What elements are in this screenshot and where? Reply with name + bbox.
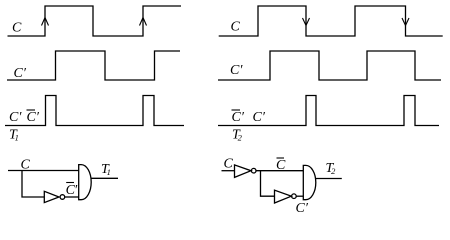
wire C input (left circuit) (8, 170, 79, 172)
wire bubble to AND gate (right circuit) (296, 195, 303, 197)
inverter G2 bubble (60, 195, 65, 200)
inverter G4 (right circuit) (235, 165, 252, 178)
wire T2 output (316, 178, 342, 180)
svg-text:C′: C′ (14, 66, 27, 81)
svg-text:C′: C′ (253, 110, 266, 125)
svg-text:C: C (231, 20, 241, 35)
overline of C-bar' (right row 3) (232, 109, 241, 111)
waveform C (right timing diagram) (219, 6, 443, 36)
overline of C-bar' (left circuit) (66, 182, 74, 184)
AND gate G3 (right circuit) (303, 165, 316, 199)
wire C-bar to AND gate (right circuit) (256, 170, 303, 172)
svg-text:T1: T1 (9, 128, 19, 143)
waveform C' (left timing diagram) (7, 51, 180, 80)
overline of C-bar (right circuit) (277, 157, 285, 159)
svg-text:C′: C′ (296, 201, 309, 216)
waveform C' (right timing diagram) (218, 51, 441, 80)
rising-edge arrow 1 (42, 18, 49, 26)
AND gate G1 (left circuit) (79, 165, 92, 200)
svg-text:T2: T2 (232, 128, 243, 143)
svg-text:T1: T1 (101, 162, 111, 177)
wire C input (right circuit) (222, 170, 235, 172)
inverter G5 (right circuit) (275, 190, 292, 203)
rising-edge arrow 2 (140, 18, 147, 26)
waveform T2 pulses (right timing diagram) (218, 96, 439, 126)
wire T1 output (91, 177, 118, 179)
wire bubble to AND gate (left circuit) (65, 196, 79, 198)
inverter G5 bubble (292, 194, 297, 199)
svg-text:C′: C′ (27, 110, 40, 125)
svg-text:C′: C′ (66, 183, 79, 198)
falling-edge arrow 2 (402, 18, 409, 26)
svg-text:T2: T2 (326, 161, 337, 176)
inverter G2 (left circuit) (44, 191, 59, 202)
overline of C-bar' (left row 3) (27, 109, 36, 111)
svg-text:C: C (21, 158, 31, 173)
waveform T1 pulses (left timing diagram) (5, 96, 184, 126)
svg-text:C′: C′ (9, 110, 22, 125)
svg-text:C′: C′ (230, 63, 243, 78)
wire branch to inverter G5 (right circuit) (261, 171, 275, 197)
svg-text:C: C (224, 157, 234, 172)
wire branch to inverter (left circuit) (22, 171, 44, 198)
svg-text:C: C (276, 158, 286, 173)
waveform C (left timing diagram) (8, 6, 182, 36)
svg-text:C: C (12, 21, 22, 36)
svg-text:C′: C′ (232, 110, 245, 125)
inverter G4 bubble (251, 168, 256, 173)
falling-edge arrow 1 (303, 18, 310, 26)
